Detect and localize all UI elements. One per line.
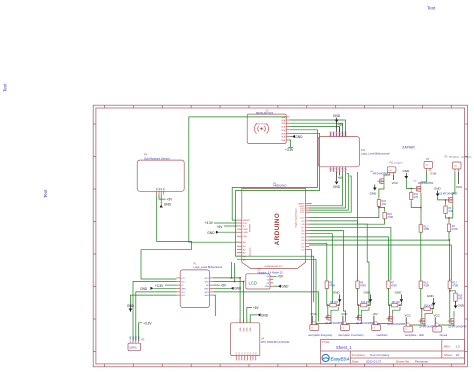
power +5V below P10: [337, 172, 344, 180]
svg-text:ESP01: ESP01: [130, 348, 138, 350]
wire 47R to gnd: [432, 305, 433, 309]
svg-text:X1: X1: [256, 352, 258, 354]
wire gnd to gate: [406, 179, 414, 189]
wire RFID to P10: [289, 123, 342, 136]
resistor R9 470R: [356, 279, 366, 290]
svg-text:wentylator zmuchaczy: wentylator zmuchaczy: [338, 333, 364, 337]
power +5V above P10: [337, 123, 344, 131]
svg-text:Text: Text: [427, 6, 436, 11]
wire R3 bottom: [446, 216, 453, 219]
transistor Q3 IRF1404ZPBF: [386, 314, 406, 326]
svg-text:VIN: VIN: [243, 236, 247, 238]
wire P10 to Arduino D13: [309, 172, 345, 208]
connector P5 Wentylator - oprawiona: [445, 156, 473, 172]
svg-text:VCC: VCC: [392, 181, 399, 185]
svg-text:+3.3V: +3.3V: [205, 221, 214, 225]
wire A4 long: [242, 256, 314, 302]
wire drain link: [425, 310, 432, 316]
wire to P1 LV1: [141, 250, 192, 279]
svg-text:+5V: +5V: [220, 284, 227, 288]
wire src to conn: [378, 323, 393, 324]
ground flag GND at RFID: [289, 135, 303, 139]
module P4 Soil Moisture Sensor: [137, 154, 184, 195]
svg-text:GND: GND: [140, 287, 148, 291]
svg-text:1/1: 1/1: [456, 353, 461, 357]
module P1 Logic_Level Bidirectional: [177, 263, 223, 308]
svg-text:GND: GND: [281, 285, 289, 289]
wire AREF stub: [309, 203, 312, 205]
wire HV2 to RTC: [213, 282, 243, 323]
resistor R4 470R: [447, 222, 457, 234]
power +3.3V bottom-left: [139, 321, 153, 341]
svg-text:Drawn By:: Drawn By:: [396, 360, 410, 364]
resistor R8 47R: [390, 302, 400, 307]
resistor R5 470R: [325, 279, 335, 290]
ground flag bottom-left: [127, 304, 135, 312]
svg-text:Q4 IRF1404ZPBF: Q4 IRF1404ZPBF: [419, 326, 438, 328]
connector P7: [310, 321, 319, 330]
wire RFID to P10: [289, 120, 345, 137]
wire D4 to R gate 3: [309, 237, 389, 280]
wire I2C SCL drop: [234, 263, 236, 282]
power +3.3V at Arduino 3V3: [205, 221, 237, 225]
transistor Q1 IRF1404ZPBF: [325, 313, 345, 325]
power +3.3V at P1 LV: [155, 284, 177, 288]
connector P9: [433, 323, 442, 332]
junction dot bus: [449, 239, 451, 241]
wire LV3 down: [136, 292, 177, 341]
svg-text:1 2: 1 2: [434, 329, 437, 331]
resistor R3 47R: [444, 204, 453, 216]
transistor U10 IRF1404ZPBF: [438, 194, 458, 205]
wire D8 down: [309, 224, 369, 304]
ground flag near Q4: [427, 294, 436, 306]
svg-text:LCD: LCD: [249, 281, 257, 286]
wire D10 to gate chain 1: [309, 207, 379, 217]
ground flag at U8: [403, 169, 411, 179]
connector P6: [424, 158, 433, 171]
svg-text:GND: GND: [364, 291, 372, 295]
wire to R4: [448, 218, 450, 222]
wire P6 to U8 drain: [421, 171, 426, 184]
svg-text:GND: GND: [164, 203, 172, 207]
svg-text:ZAPHIR: ZAPHIR: [402, 145, 415, 149]
wire drain link: [393, 307, 400, 314]
svg-text:VCC: VCC: [456, 185, 463, 189]
stub A4: [236, 255, 241, 257]
svg-text:IRF1404ZPBF: IRF1404ZPBF: [418, 182, 434, 185]
svg-text:+5V: +5V: [253, 306, 260, 310]
wire D2 to R5: [309, 243, 327, 281]
resistor R6 47R: [328, 302, 338, 307]
power +5V at LCD: [273, 275, 284, 279]
svg-text:POWER: POWER: [250, 223, 252, 232]
wire D7 down: [309, 227, 391, 280]
svg-text:GND: GND: [403, 169, 411, 173]
svg-text:470R: 470R: [452, 228, 458, 231]
wire R16 out left up: [358, 172, 385, 224]
svg-text:470R: 470R: [391, 284, 397, 287]
wire drain 5: [453, 311, 455, 317]
svg-text:RTC DS01307-AT24C32: RTC DS01307-AT24C32: [261, 340, 290, 344]
resistor R13 470R: [419, 279, 429, 290]
wire soil A0 down: [157, 195, 192, 250]
wire P5 to U10 drain: [453, 172, 455, 195]
wire HV3 long right: [213, 292, 318, 322]
resistor R10 47R: [359, 302, 371, 307]
svg-text:470R: 470R: [387, 216, 393, 219]
svg-text:GND: GND: [333, 114, 341, 118]
svg-text:HV1: HV1: [331, 131, 333, 136]
svg-text:Logic_Level Bidirectional: Logic_Level Bidirectional: [193, 265, 222, 269]
power +5V at RTC: [247, 306, 260, 323]
resistor R15 47R: [377, 198, 386, 209]
wire I2C SDA drop: [230, 262, 232, 278]
svg-text:1.0: 1.0: [456, 344, 461, 348]
svg-text:470R: 470R: [423, 228, 429, 231]
wire drain link: [331, 307, 338, 313]
power +5V at P8: [372, 312, 377, 325]
svg-text:G-50: G-50: [430, 172, 436, 176]
svg-text:1 2: 1 2: [372, 328, 375, 330]
svg-text:GND: GND: [333, 185, 341, 189]
wire src to conn: [316, 322, 331, 325]
svg-text:Q5 IRF1404ZPBF: Q5 IRF1404ZPBF: [448, 326, 467, 328]
power +5V at soil sensor: [159, 195, 173, 202]
power +5V at Arduino 5V: [217, 225, 237, 229]
svg-text:wentylator dosypowy: wentylator dosypowy: [308, 333, 333, 337]
connector P2: [341, 321, 350, 330]
wire P10 to Arduino GND: [309, 172, 343, 206]
wire drain link: [362, 307, 369, 313]
power +3.3V at RFID: [285, 140, 294, 152]
svg-text:Text: Text: [43, 189, 48, 198]
ground flag near Q1: [333, 291, 342, 303]
wire conn to drain: [384, 175, 390, 177]
wire src to R15: [379, 186, 384, 198]
svg-text:Wentylator - oprawiona: Wentylator - oprawiona: [449, 156, 472, 159]
resistor R7 470R: [387, 279, 397, 290]
svg-text:REV:: REV:: [444, 344, 451, 348]
module U4 RTC DS01307: [231, 319, 290, 361]
ground flag at soil sensor: [160, 195, 172, 208]
wire HV4 short: [213, 295, 215, 316]
svg-text:47R: 47R: [382, 203, 387, 206]
svg-text:X1: X1: [236, 352, 238, 354]
svg-text:47R: 47R: [458, 298, 463, 300]
wire branch: [450, 290, 456, 293]
svg-text:RFID-RC522: RFID-RC522: [256, 111, 274, 115]
svg-text:470R: 470R: [360, 284, 366, 287]
wire R15 to R16: [379, 206, 385, 210]
svg-text:47R: 47R: [414, 196, 419, 199]
svg-text:VCC: VCC: [311, 312, 318, 316]
wire 47R to gnd: [338, 302, 339, 306]
ground flag at U10: [434, 187, 442, 197]
svg-text:GND: GND: [427, 294, 435, 298]
svg-text:GND: GND: [370, 191, 378, 195]
power VCC at P2: [341, 312, 348, 325]
svg-text:Your Company: Your Company: [370, 353, 390, 357]
svg-text:GND: GND: [333, 291, 341, 295]
svg-text:X1: X1: [250, 352, 252, 354]
display U5 Nextion LCD: [246, 269, 283, 289]
wire Arduino D12 up: [309, 174, 348, 211]
svg-text:Pinsoman: Pinsoman: [415, 360, 429, 364]
wire: [358, 288, 359, 305]
svg-text:X1: X1: [253, 352, 255, 354]
wire RFID to P10: [289, 127, 339, 137]
wire gate: [420, 309, 422, 321]
power VCC at P7: [311, 312, 318, 325]
svg-text:GND: GND: [234, 287, 242, 291]
wire R4 to bus: [448, 232, 450, 241]
svg-text:1 2: 1 2: [341, 328, 344, 330]
wire D5 down: [309, 234, 332, 304]
wire R11 bottom: [411, 202, 420, 208]
junction dot: [410, 188, 412, 190]
ground flag at Arduino GND: [207, 231, 237, 236]
svg-text:ARDUINO: ARDUINO: [274, 213, 281, 245]
transistor Q5 IRF1404ZPBF: [448, 317, 468, 329]
svg-text:GND: GND: [243, 232, 248, 234]
svg-text:HV1: HV1: [342, 131, 344, 136]
wire src to conn: [347, 322, 362, 325]
transistor Q2 IRF1404ZPBF: [355, 313, 375, 325]
svg-text:R18: R18: [458, 296, 463, 298]
svg-text:EasyEDA: EasyEDA: [331, 356, 350, 361]
svg-text:Date:: Date:: [352, 360, 359, 364]
svg-text:X1: X1: [245, 352, 247, 354]
svg-text:(ATMEGA328P-PU): (ATMEGA328P-PU): [265, 265, 283, 268]
resistor R14 47R: [422, 306, 434, 311]
svg-text:GND: GND: [139, 336, 141, 341]
svg-text:R10 47R: R10 47R: [361, 302, 370, 304]
module U3 RFID-RC522: [247, 109, 289, 143]
wire A5 long: [242, 259, 316, 324]
wire U10 source down: [452, 205, 454, 219]
junction dot: [378, 207, 380, 209]
svg-text:R8 47R: R8 47R: [392, 302, 400, 304]
connector P11: [387, 162, 403, 176]
module P10 Logic_Level Bidirectional: [318, 131, 390, 172]
svg-text:Q3 IRF1404ZPBF: Q3 IRF1404ZPBF: [387, 324, 406, 326]
svg-text:TITLE:: TITLE:: [322, 340, 330, 344]
svg-text:R6 47R: R6 47R: [330, 302, 338, 304]
resistor R18 47R: [454, 291, 463, 303]
transistor Q4 IRF1404ZPBF: [419, 317, 439, 329]
wire 47R to gnd: [400, 302, 401, 306]
svg-text:VCC: VCC: [341, 312, 348, 316]
wire gnd to gate U10: [438, 197, 447, 200]
wire 47R to gnd: [369, 302, 370, 306]
ground flag at U9: [370, 185, 378, 196]
svg-text:2022-01-27: 2022-01-27: [366, 360, 382, 364]
svg-text:VCC: VCC: [434, 314, 441, 318]
power +5V at P1 right: [213, 284, 227, 288]
svg-text:GND: GND: [434, 187, 442, 191]
wire: [389, 288, 390, 305]
svg-text:GND: GND: [295, 135, 303, 139]
power VCC at U10: [456, 172, 463, 189]
connector P8: [372, 321, 381, 330]
svg-text:GND: GND: [133, 336, 135, 341]
svg-text:Logic_Level Bidirectional: Logic_Level Bidirectional: [361, 152, 390, 156]
transistor U8 IRF1404ZPBF: [414, 181, 434, 194]
ground flag at P1 right: [213, 287, 242, 291]
title block: [321, 340, 465, 364]
svg-text:Digital Input/Output: Digital Input/Output: [295, 208, 298, 227]
wire src to conn: [410, 325, 425, 326]
svg-text:+3.3V: +3.3V: [285, 148, 294, 152]
svg-text:wentylator - LED: wentylator - LED: [405, 333, 424, 337]
svg-text:+5V: +5V: [372, 312, 377, 316]
svg-text:Company:: Company:: [352, 353, 366, 357]
svg-text:X1: X1: [247, 352, 249, 354]
svg-text:GND: GND: [207, 231, 215, 235]
svg-text:GND: GND: [261, 313, 269, 317]
ground flag near Q2: [364, 291, 373, 303]
svg-text:zamek: zamek: [439, 333, 447, 337]
svg-text:GND: GND: [243, 229, 248, 231]
transistor U9 IRF1404ZPBF: [370, 171, 389, 186]
svg-text:R14 47R: R14 47R: [424, 306, 433, 308]
svg-text:RFID RC522: RFID RC522: [256, 123, 268, 125]
wire U8 source down: [420, 193, 422, 224]
ground flag at LCD: [273, 285, 289, 289]
wire src to conn 5: [439, 325, 454, 326]
mcu U1 ARDUINO: [237, 182, 309, 269]
connector P8: [404, 323, 413, 332]
svg-text:Sheet_1: Sheet_1: [336, 345, 352, 350]
wire gate to R3: [445, 200, 447, 204]
svg-text:ARDUINO: ARDUINO: [273, 184, 288, 188]
wire D1 bus right: [309, 245, 451, 280]
wire Arduino D11 up: [309, 176, 351, 212]
svg-text:GND: GND: [457, 304, 465, 308]
wire gate: [326, 305, 328, 317]
svg-text:zasilanie: zasilanie: [394, 163, 403, 165]
svg-text:Sheet:: Sheet:: [444, 353, 453, 357]
ground flag below P10: [333, 172, 341, 189]
svg-text:+5V: +5V: [337, 123, 344, 127]
svg-text:Text: Text: [3, 83, 8, 92]
svg-text:VCC: VCC: [405, 314, 412, 318]
svg-text:nawilzacz: nawilzacz: [376, 333, 388, 337]
wire LV4 to gnd: [130, 295, 176, 303]
ground flag above P10: [333, 114, 341, 132]
wire RFID row long loop: [235, 133, 319, 256]
svg-text:RESET: RESET: [243, 220, 251, 222]
svg-text:470R: 470R: [452, 284, 458, 287]
resistor R11 47R: [410, 191, 419, 202]
svg-text:Analog In: Analog In: [249, 247, 252, 257]
svg-text:X1: X1: [242, 352, 244, 354]
wire: [327, 288, 328, 305]
svg-text:+5V: +5V: [277, 275, 284, 279]
ground flag at P1 left: [140, 287, 176, 291]
svg-text:47R: 47R: [448, 211, 453, 213]
wire D0 wrap down: [309, 250, 312, 325]
ground flag at RTC: [250, 313, 269, 323]
connector P2 ESP-01: [128, 336, 145, 351]
svg-text:A0: A0: [162, 188, 165, 190]
svg-text:+5V: +5V: [217, 225, 224, 229]
power VCC at U9: [392, 175, 399, 185]
power VCC at P9: [434, 314, 441, 327]
svg-text:GND: GND: [136, 336, 138, 341]
wire D3 bus right: [309, 240, 449, 280]
svg-text:470R: 470R: [329, 284, 335, 287]
wire gate 5: [448, 288, 451, 321]
wire RFID RST to Arduino A0: [189, 117, 286, 242]
svg-text:GND: GND: [130, 336, 132, 341]
svg-text:HV1: HV1: [334, 131, 336, 136]
svg-text:1 2: 1 2: [405, 329, 408, 331]
ground flag below R18: [454, 301, 465, 308]
svg-text:1 2: 1 2: [311, 328, 314, 330]
wire LV2 down: [133, 282, 177, 342]
svg-text:X1: X1: [239, 352, 241, 354]
wire D6 down: [309, 231, 346, 322]
wire chain to bottom group4: [420, 232, 422, 280]
junction dots I2C: [231, 277, 233, 279]
wire RFID row to RESET loop: [232, 130, 317, 220]
frame border: [93, 105, 467, 367]
resistor R16 470R: [383, 210, 393, 220]
svg-text:GND: GND: [395, 291, 403, 295]
wire gate: [357, 305, 359, 317]
power VCC at P8: [405, 314, 412, 327]
svg-text:GND: GND: [265, 286, 270, 288]
svg-text:+3.3V: +3.3V: [143, 321, 152, 325]
svg-text:GND: GND: [181, 288, 186, 290]
svg-text:GND: GND: [204, 288, 209, 290]
svg-text:HV1: HV1: [345, 131, 347, 136]
wire HV1 to RTC: [213, 278, 240, 323]
resistor R12 470R: [419, 223, 429, 235]
wire gate: [388, 305, 390, 319]
svg-text:+5V: +5V: [167, 198, 174, 202]
resistor R17 470R: [448, 279, 458, 290]
wire D9 to R9: [309, 221, 358, 281]
svg-text:U10 IRF1404ZPBF: U10 IRF1404ZPBF: [438, 194, 458, 196]
svg-text:+3.3V: +3.3V: [155, 284, 164, 288]
wire: [421, 288, 422, 308]
EasyEDA logo: [322, 354, 350, 361]
svg-text:470R: 470R: [423, 284, 429, 287]
svg-text:Soil Moisture Sensor: Soil Moisture Sensor: [144, 156, 170, 160]
ground flag near Q3: [395, 291, 404, 303]
